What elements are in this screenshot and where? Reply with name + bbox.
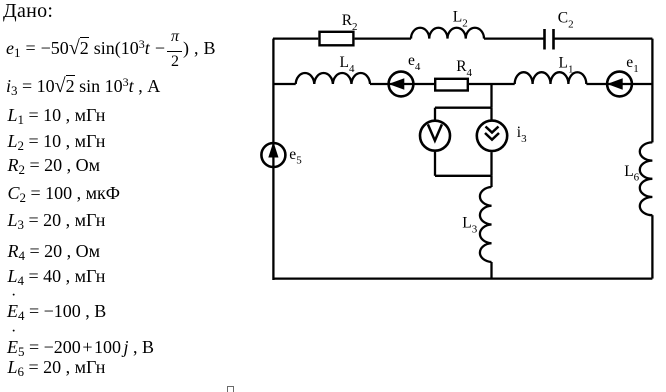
svg-text:R4: R4 [456, 58, 472, 79]
wire row2 left [273, 83, 295, 85]
eq C2 [8, 184, 121, 202]
wire V to bracket bottom [434, 152, 436, 176]
svg-text:L6: L6 [624, 163, 639, 184]
source e5 [261, 143, 285, 167]
eq L4 [8, 267, 106, 285]
wire left vertical [272, 39, 274, 280]
eq E5 [7, 338, 154, 356]
wire top-left [273, 37, 318, 39]
resistor R4 [435, 79, 468, 91]
wire bracket bottom [435, 175, 492, 177]
eq R4 [8, 242, 101, 260]
inductor L1 [515, 72, 587, 84]
wire R4 to L1 [469, 83, 515, 85]
eq L3 [8, 211, 106, 229]
eq E4 [7, 302, 106, 320]
svg-text:L2: L2 [453, 8, 468, 29]
wire R2 to L2 [355, 37, 411, 39]
wire L1 to corner [586, 83, 652, 85]
svg-text:e5: e5 [289, 146, 302, 167]
inductor L3 [480, 187, 492, 262]
svg-text:R2: R2 [342, 12, 358, 33]
eq i3 [6, 77, 160, 95]
source e1 [607, 72, 632, 97]
wire junction drop [490, 84, 492, 108]
voltmeter V [420, 121, 450, 151]
wire bracket top [435, 107, 492, 109]
svg-text:L3: L3 [462, 215, 477, 236]
wire C2 to corner [554, 37, 653, 39]
wire right vertical bottom [651, 215, 653, 278]
wire L2 to C2 [484, 37, 545, 39]
eq R2 [8, 156, 101, 174]
svg-text:i3: i3 [517, 124, 527, 145]
inductor L2 [411, 28, 484, 39]
wire right vertical top [651, 39, 653, 143]
wire i3 drop [490, 108, 492, 120]
eq L6 [8, 358, 106, 376]
svg-text:e4: e4 [408, 52, 421, 73]
inductor L6 [640, 142, 653, 215]
anchor square [227, 386, 234, 392]
svg-text:e1: e1 [626, 54, 638, 75]
eq L1 [8, 106, 106, 124]
wire L3 to bottom [490, 262, 492, 279]
resistor R2 [320, 32, 354, 46]
wire bottom [273, 277, 652, 279]
inductor L4 [296, 73, 370, 84]
eq e1 [6, 39, 215, 59]
wire L4 to R4 [370, 83, 434, 85]
source i3 [477, 121, 507, 151]
source e4 [389, 72, 414, 97]
svg-text:C2: C2 [558, 9, 574, 30]
eq L2 [8, 132, 106, 150]
capacitor C2 [545, 29, 554, 50]
wire i3 to bracket bottom [490, 152, 492, 176]
given-text heading [3, 2, 53, 20]
wire to L3 [490, 176, 492, 187]
wire V drop [434, 108, 436, 120]
